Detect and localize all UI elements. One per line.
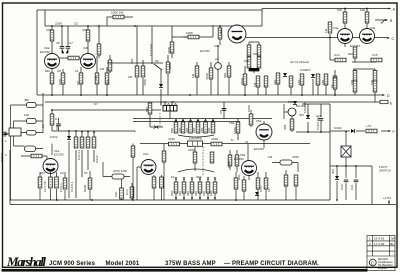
svg-text:47K: 47K (82, 28, 87, 32)
svg-text:ECC83: ECC83 (350, 44, 360, 48)
svg-text:47K: 47K (46, 28, 51, 32)
svg-text:SWITCH: SWITCH (379, 169, 391, 173)
svg-text:JCM 900 Series: JCM 900 Series (49, 261, 96, 267)
svg-text:220K: 220K (188, 148, 195, 152)
svg-text:A: A (393, 8, 396, 12)
svg-text:1: 1 (369, 237, 371, 241)
svg-text:45K: 45K (24, 98, 29, 102)
svg-text:1: 1 (5, 139, 7, 143)
svg-text:1K: 1K (84, 171, 88, 175)
svg-text:15K: 15K (200, 128, 204, 133)
svg-text:100K: 100K (247, 105, 251, 112)
svg-text:INPUT: INPUT (0, 153, 4, 162)
svg-text:1N4007: 1N4007 (300, 68, 311, 72)
svg-text:820R: 820R (83, 184, 87, 192)
svg-text:+4.5V: +4.5V (383, 196, 391, 200)
svg-text:C16: C16 (259, 186, 263, 192)
svg-text:17·2·92: 17·2·92 (374, 242, 385, 246)
svg-text:0.002: 0.002 (334, 126, 342, 130)
svg-text:480K: 480K (168, 63, 172, 70)
svg-text:22K: 22K (273, 80, 277, 85)
svg-text:1M: 1M (128, 75, 133, 79)
svg-text:10K: 10K (253, 52, 258, 56)
svg-text:C14: C14 (334, 53, 340, 57)
svg-text:0.68: 0.68 (58, 79, 62, 85)
svg-text:1M: 1M (191, 73, 195, 78)
svg-text:10K(VR3): 10K(VR3) (189, 137, 202, 141)
svg-text:47K: 47K (178, 128, 182, 133)
svg-text:470K: 470K (168, 137, 175, 141)
svg-text:C1 0.022: C1 0.022 (149, 43, 153, 56)
svg-text:4K7: 4K7 (331, 168, 335, 174)
svg-text:E: E (390, 102, 393, 106)
svg-text:+7V: +7V (366, 124, 371, 128)
svg-text:100K: 100K (233, 127, 237, 134)
svg-text:47K: 47K (178, 191, 182, 196)
svg-text:V4a: V4a (333, 26, 339, 30)
svg-text:10K: 10K (370, 80, 374, 85)
svg-text:10K: 10K (209, 191, 213, 196)
svg-text:10K: 10K (360, 8, 365, 12)
svg-text:10K: 10K (350, 80, 354, 85)
svg-text:C: C (371, 260, 375, 265)
svg-text:V1b: V1b (143, 152, 149, 156)
svg-text:S2: S2 (155, 59, 159, 63)
svg-text:10K: 10K (244, 59, 249, 63)
svg-text:C8: C8 (76, 81, 80, 85)
svg-text:5↓: 5↓ (231, 138, 235, 142)
svg-text:100K: 100K (227, 161, 231, 168)
svg-text:820: 820 (45, 69, 50, 73)
svg-text:C11 0.1: C11 0.1 (77, 149, 81, 160)
svg-text:0.1: 0.1 (55, 117, 60, 121)
svg-text:V2b: V2b (83, 46, 89, 50)
svg-text:C6: C6 (56, 41, 60, 45)
svg-text:10K: 10K (237, 175, 241, 180)
svg-text:C5: C5 (219, 110, 223, 114)
svg-text:100K 1W: 100K 1W (111, 11, 124, 15)
svg-text:2: 2 (5, 153, 7, 157)
svg-text:2: 2 (369, 242, 371, 246)
svg-text:ECC83: ECC83 (234, 157, 244, 161)
svg-text:100K: 100K (219, 29, 223, 36)
svg-text:2K2: 2K2 (196, 175, 202, 179)
svg-text:56K: 56K (170, 128, 174, 133)
svg-text:D: D (387, 94, 390, 98)
svg-text:Marshall: Marshall (6, 254, 46, 269)
svg-text:1K: 1K (267, 188, 271, 192)
svg-text:470K 6.8K: 470K 6.8K (113, 169, 127, 173)
svg-text:C10 0.1: C10 0.1 (70, 181, 74, 192)
svg-text:C7: C7 (69, 41, 73, 45)
svg-text:C5: C5 (74, 22, 78, 26)
svg-text:C2 0.68: C2 0.68 (43, 181, 47, 192)
svg-text:C2: C2 (60, 171, 64, 175)
svg-text:470K: 470K (211, 137, 218, 141)
svg-text:1M: 1M (100, 67, 105, 71)
svg-text:56K: 56K (223, 73, 227, 78)
svg-text:10K: 10K (207, 128, 211, 133)
svg-text:10K: 10K (114, 192, 118, 197)
svg-text:ECC83: ECC83 (54, 153, 64, 157)
svg-text:470K: 470K (143, 79, 147, 86)
svg-text:375W BASS AMP: 375W BASS AMP (165, 261, 216, 267)
svg-text:↑47: ↑47 (93, 102, 98, 106)
svg-text:33K: 33K (186, 191, 190, 196)
svg-text:JW: JW (390, 237, 395, 241)
svg-text:220K: 220K (55, 22, 62, 26)
svg-text:220K: 220K (167, 47, 171, 54)
svg-text:470K: 470K (240, 78, 244, 85)
svg-text:10K: 10K (297, 80, 301, 85)
svg-text:1M: 1M (324, 28, 328, 33)
svg-text:TR1: TR1 (288, 100, 294, 104)
svg-text:C9: C9 (55, 126, 59, 130)
svg-text:820: 820 (348, 52, 353, 56)
svg-text:B1: B1 (171, 100, 175, 104)
svg-text:15K: 15K (202, 191, 206, 196)
svg-text:47: 47 (245, 140, 249, 144)
svg-text:56K: 56K (170, 191, 174, 196)
svg-text:C21: C21 (350, 184, 354, 190)
svg-text:A1: A1 (163, 100, 167, 104)
svg-text:BL: BL (390, 242, 394, 246)
svg-text:C18 0.022: C18 0.022 (316, 116, 320, 130)
svg-text:C: C (392, 37, 395, 41)
svg-text:ECC83: ECC83 (200, 49, 210, 53)
svg-text:16·9·91: 16·9·91 (374, 237, 385, 241)
svg-text:1M: 1M (268, 155, 273, 159)
svg-text:4K8: 4K8 (283, 124, 287, 130)
svg-text:0.022: 0.022 (50, 135, 58, 139)
svg-text:47K: 47K (321, 80, 325, 85)
svg-text:2K7: 2K7 (40, 171, 46, 175)
svg-text:22K: 22K (194, 191, 198, 196)
svg-text:C8: C8 (57, 69, 61, 73)
svg-text:1K: 1K (41, 124, 45, 128)
svg-text:C3 0.1: C3 0.1 (59, 183, 63, 192)
svg-text:— PREAMP CIRCUIT DIAGRAM.: — PREAMP CIRCUIT DIAGRAM. (224, 261, 319, 267)
svg-text:1M: 1M (94, 75, 98, 80)
svg-text:C15: C15 (372, 53, 378, 57)
svg-text:10K: 10K (24, 113, 29, 117)
svg-text:0.022: 0.022 (95, 155, 99, 163)
svg-text:ECC83: ECC83 (254, 147, 264, 151)
svg-text:10K: 10K (337, 8, 342, 12)
svg-text:1M: 1M (253, 82, 257, 87)
svg-text:A2 C4 (linked): A2 C4 (linked) (290, 60, 309, 64)
svg-text:1N4148: 1N4148 (303, 102, 307, 113)
svg-text:33K: 33K (185, 128, 189, 133)
svg-text:C13: C13 (125, 189, 129, 195)
svg-text:V4b: V4b (370, 26, 376, 30)
svg-text:22K: 22K (192, 128, 196, 133)
svg-text:A2: A2 (215, 57, 219, 61)
svg-text:ECC83: ECC83 (40, 50, 50, 54)
svg-text:C20: C20 (340, 184, 344, 190)
svg-text:B: B (390, 19, 393, 23)
svg-text:1K: 1K (330, 84, 334, 88)
svg-text:Model 2001: Model 2001 (106, 261, 140, 267)
svg-text:470K: 470K (205, 73, 209, 80)
svg-text:0.02: 0.02 (106, 79, 110, 85)
svg-text:F: F (393, 130, 396, 134)
svg-text:1K: 1K (75, 69, 79, 73)
svg-text:100K: 100K (186, 31, 193, 35)
svg-text:V3a: V3a (214, 44, 220, 48)
svg-text:5K6: 5K6 (145, 106, 149, 112)
svg-text:TR1: TR1 (229, 121, 235, 125)
svg-text:470K: 470K (292, 155, 299, 159)
svg-text:1K: 1K (171, 175, 175, 179)
svg-text:V5a: V5a (256, 119, 262, 123)
svg-text:England: England (378, 266, 388, 270)
svg-text:10K: 10K (130, 59, 134, 64)
